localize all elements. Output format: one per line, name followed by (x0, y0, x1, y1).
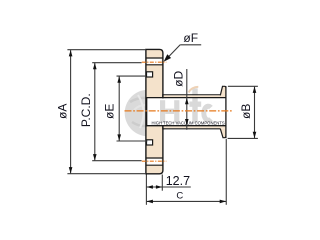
svg-text:C: C (176, 190, 183, 201)
svg-text:øA: øA (56, 104, 70, 119)
svg-text:øE: øE (102, 104, 116, 119)
svg-text:øF: øF (183, 31, 198, 45)
svg-text:øB: øB (239, 104, 253, 119)
svg-text:HIGH TECH VACUUM COMPONENTS: HIGH TECH VACUUM COMPONENTS (152, 121, 225, 126)
svg-text:12.7: 12.7 (166, 174, 190, 188)
svg-text:øD: øD (171, 70, 185, 86)
svg-text:P.C.D.: P.C.D. (79, 93, 93, 127)
